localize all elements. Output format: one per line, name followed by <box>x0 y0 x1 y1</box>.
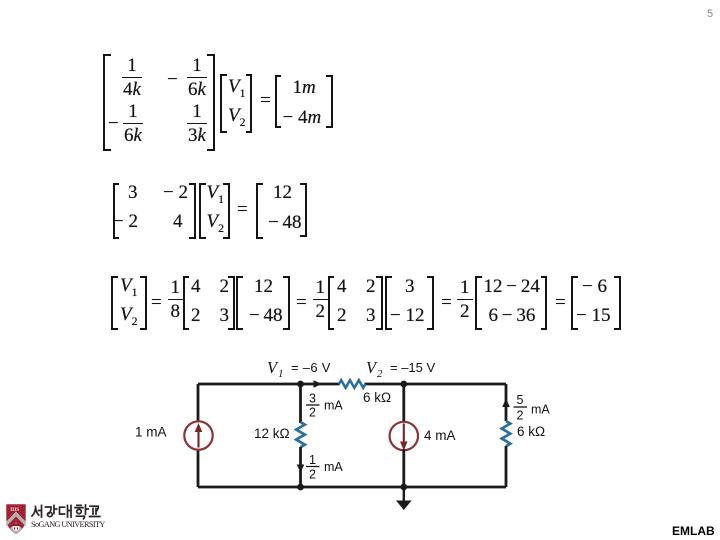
ground symbol <box>396 501 412 511</box>
node dot V2 <box>400 381 407 388</box>
matrix A bracket right <box>228 276 235 330</box>
A 2 col2 <box>220 277 230 296</box>
wire: middle branch lower <box>299 447 302 487</box>
entry 4 <box>173 212 183 231</box>
rhs 1m <box>293 78 316 97</box>
entry -2 <box>163 183 188 202</box>
minus entry 12 <box>167 70 178 89</box>
node dot bottom of 12k branch <box>297 484 304 491</box>
svg-text:3: 3 <box>309 392 316 406</box>
svg-text:1: 1 <box>309 453 316 467</box>
svg-text:1 mA: 1 mA <box>135 425 167 440</box>
current source I2 4mA circle <box>390 422 418 450</box>
svg-text:2: 2 <box>517 409 524 423</box>
-6 <box>582 277 607 296</box>
current arrow down on 12k branch <box>297 465 305 473</box>
svg-text:6 kΩ: 6 kΩ <box>363 390 391 405</box>
fraction 1/2 first <box>313 278 329 321</box>
entry 1/4k <box>122 56 142 99</box>
6-36 <box>489 306 536 325</box>
current source I1 1mA circle <box>184 421 212 449</box>
-12 <box>390 306 424 325</box>
rhs -4m <box>283 108 322 127</box>
bracket left of conductance matrix <box>103 54 112 151</box>
12 <box>254 277 273 296</box>
matrix A2 bracket right <box>376 276 383 330</box>
matrix A2 bracket left <box>328 276 335 330</box>
rhs bracket left <box>275 75 282 128</box>
V2 <box>207 212 225 235</box>
V1 <box>207 183 225 206</box>
equals 1 <box>151 293 162 312</box>
svg-text:mA: mA <box>531 403 550 417</box>
V1 <box>228 77 246 100</box>
vec 12-24 bracket left <box>475 276 482 330</box>
wire: bottom rail <box>198 486 506 489</box>
svg-text:SоGANG UNIVERSITY: SоGANG UNIVERSITY <box>31 520 105 529</box>
svg-text:2: 2 <box>309 468 316 482</box>
equals 3 <box>441 293 452 312</box>
svg-text:12 kΩ: 12 kΩ <box>254 426 290 441</box>
rhs -48 <box>268 213 302 232</box>
vec 3/-12 bracket right <box>427 276 434 330</box>
A 4 <box>191 277 201 296</box>
rhs bracket left <box>256 183 263 239</box>
wire: middle branch 2 (4mA) upper <box>402 384 405 423</box>
bracket right of matrix <box>189 183 196 239</box>
svg-text:mA: mA <box>324 399 343 413</box>
A2 3 <box>366 306 376 325</box>
V2 <box>120 305 138 328</box>
EMLAB footer <box>672 524 715 538</box>
resistor R3 6k zigzag <box>502 421 511 446</box>
entry 1/3k <box>187 102 207 145</box>
svg-text:= –15 V: = –15 V <box>390 360 436 375</box>
svg-text:4 mA: 4 mA <box>424 428 456 443</box>
wire: right branch lower <box>505 446 508 487</box>
rhs bracket right <box>300 183 307 237</box>
-48 <box>249 306 283 325</box>
vec V bracket right <box>140 276 147 330</box>
wire: left branch upper <box>197 384 200 422</box>
3 <box>405 277 415 296</box>
label 1/2 mA fraction <box>306 453 343 482</box>
wire: right branch upper <box>505 384 508 421</box>
page number 5 <box>707 8 713 20</box>
rhs bracket right <box>326 75 333 128</box>
svg-text:5: 5 <box>517 393 524 407</box>
vec 12-24 bracket right <box>541 276 548 330</box>
A 2 row2 <box>191 306 201 325</box>
vector V bracket left <box>199 183 206 239</box>
wire: top rail right segment <box>365 383 507 386</box>
logo hangul text (drawn) <box>32 505 100 519</box>
A2 4 <box>337 277 347 296</box>
entry -2 row2 <box>113 212 138 231</box>
wire: left branch lower <box>197 449 200 487</box>
vec -6/-15 bracket right <box>614 276 621 330</box>
svg-text:6 kΩ: 6 kΩ <box>517 424 545 439</box>
vector V bracket right <box>223 183 230 239</box>
svg-text:2: 2 <box>309 406 316 420</box>
vec -6/-15 bracket left <box>571 276 578 330</box>
matrix A bracket left <box>183 276 190 330</box>
wire: 4mA branch lower <box>402 449 405 487</box>
label 5/2 mA fraction <box>514 393 551 423</box>
current source I2 arrow (down) <box>403 424 405 444</box>
current source I1 arrow (up) <box>197 430 199 448</box>
entry 1/6k <box>187 56 207 99</box>
A2 2 col2 <box>366 277 376 296</box>
node dot V1 <box>297 381 304 388</box>
-15 <box>576 306 610 325</box>
wire: top rail left segment V1 node to left corner <box>198 383 340 386</box>
V1 <box>120 276 138 299</box>
fraction 1/8 <box>168 278 184 321</box>
equals 2 <box>296 293 307 312</box>
ground stub <box>403 487 405 501</box>
minus entry 21 <box>108 114 119 133</box>
equals 4 <box>555 293 566 312</box>
resistor R2 6k horizontal zigzag <box>339 380 365 388</box>
A2 2 row2 <box>337 306 347 325</box>
entry 1/6k row2 <box>123 102 143 145</box>
svg-text:2: 2 <box>377 368 383 380</box>
vector V bracket right <box>246 74 253 133</box>
vec V bracket left <box>111 276 118 330</box>
vec 3/-12 bracket left <box>385 276 392 330</box>
vec 12/-48 bracket right <box>283 276 290 330</box>
12-24 <box>484 277 540 296</box>
svg-text:1: 1 <box>278 368 284 380</box>
A 3 <box>220 306 230 325</box>
svg-text:mA: mA <box>324 460 343 474</box>
equals <box>260 91 271 110</box>
equals <box>237 200 248 219</box>
node dot ground junction <box>400 484 407 491</box>
label 3/2 mA fraction <box>306 392 343 420</box>
current arrow up on right branch <box>502 399 510 408</box>
vec 12/-48 bracket left <box>236 276 243 330</box>
current arrow right on top rail <box>314 380 323 388</box>
V2 <box>228 106 246 129</box>
entry 3 <box>128 183 138 202</box>
vector V bracket left <box>220 74 227 133</box>
bracket left of matrix <box>113 183 120 239</box>
svg-text:= –6 V: = –6 V <box>291 360 331 375</box>
Sogang University logo shield <box>6 504 25 534</box>
resistor R1 12k zigzag <box>296 422 305 447</box>
wire: middle branch (12k) upper <box>299 384 302 423</box>
svg-text:IHS: IHS <box>10 507 19 513</box>
fraction 1/2 second <box>457 278 473 321</box>
bracket right of conductance matrix <box>207 54 216 151</box>
rhs 12 <box>273 183 292 202</box>
